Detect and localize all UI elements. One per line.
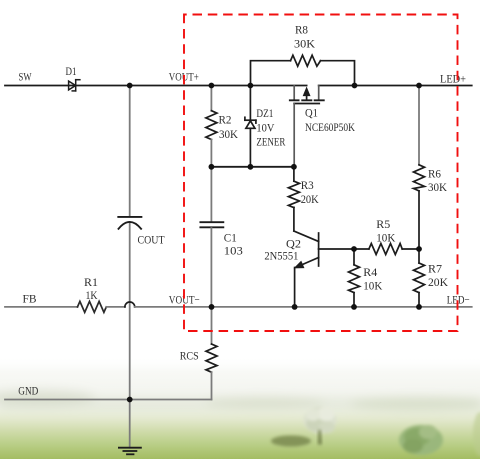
svg-text:20K: 20K	[428, 275, 448, 289]
node R4 bottom	[351, 304, 357, 310]
svg-text:COUT: COUT	[138, 233, 166, 247]
svg-text:R7: R7	[428, 262, 442, 276]
node VOUT-/C1/RCS	[209, 304, 215, 310]
svg-text:2N5551: 2N5551	[264, 249, 298, 263]
wire: gate node rail (R2/DZ1/R3)	[211, 166, 294, 168]
wire: top net SW/VOUT+/LED+ left segment	[5, 85, 307, 87]
zener DZ1	[245, 86, 256, 167]
resistor R8	[251, 55, 355, 85]
resistor RCS	[206, 307, 217, 400]
node gate rail R3	[291, 164, 297, 170]
svg-text:R3: R3	[301, 178, 314, 192]
svg-text:30K: 30K	[219, 127, 238, 141]
svg-text:LED+: LED+	[440, 72, 466, 86]
svg-text:R6: R6	[428, 167, 441, 181]
transistor Q2	[294, 231, 319, 307]
node R5/R4	[351, 246, 357, 252]
node gate rail R2	[209, 164, 215, 170]
wire: GND rail	[5, 399, 212, 401]
svg-text:R2: R2	[219, 113, 232, 127]
svg-text:Q1: Q1	[305, 106, 318, 120]
node Q2 emitter	[292, 304, 298, 310]
capacitor COUT	[118, 217, 141, 229]
resistor R1	[78, 301, 107, 312]
svg-text:NCE60P50K: NCE60P50K	[305, 120, 355, 134]
wire: FB net R1 to hop	[106, 306, 125, 308]
svg-text:R5: R5	[376, 217, 390, 231]
svg-text:DZ1: DZ1	[256, 106, 273, 120]
svg-text:RCS: RCS	[180, 349, 199, 363]
svg-text:FB: FB	[23, 292, 37, 306]
wire hop over COUT branch	[125, 302, 135, 307]
svg-text:R8: R8	[295, 23, 308, 37]
svg-text:30K: 30K	[294, 37, 315, 51]
resistor R5	[354, 244, 419, 255]
capacitor C1	[200, 167, 223, 307]
wire: COUT branch vertical (VOUT+ down to GND)	[129, 86, 131, 216]
node GND/COUT	[127, 397, 133, 403]
svg-text:10V: 10V	[256, 120, 274, 134]
wire: FB net left of R1	[5, 306, 78, 308]
svg-text:SW: SW	[19, 70, 32, 84]
svg-text:1K: 1K	[86, 288, 98, 302]
wire: VOUT- / LED- net	[135, 306, 472, 308]
svg-text:GND: GND	[18, 384, 38, 398]
mosfet Q1	[290, 86, 324, 167]
ground symbol	[119, 400, 141, 454]
wire: top net right segment to LED+	[319, 85, 472, 87]
svg-text:R1: R1	[84, 275, 98, 289]
node R2 top	[209, 83, 215, 89]
node R7 bottom	[416, 304, 422, 310]
svg-text:R4: R4	[363, 265, 377, 279]
svg-text:103: 103	[224, 244, 243, 258]
node R5/R6/R7	[416, 246, 422, 252]
node gate rail DZ1	[248, 164, 254, 170]
wire: COUT lower lead to ground rail	[129, 223, 131, 399]
node DZ1 top	[248, 83, 254, 89]
svg-text:20K: 20K	[301, 192, 319, 206]
resistor R4	[349, 249, 360, 307]
svg-text:30K: 30K	[428, 180, 447, 194]
diode D1 (schottky)	[69, 80, 80, 91]
highlight box (red dashed)	[184, 15, 458, 332]
resistor R2	[206, 86, 217, 167]
resistor R7	[414, 249, 425, 307]
resistor R6	[414, 86, 425, 249]
svg-text:D1: D1	[66, 64, 77, 78]
node Q1 drain / R8	[352, 83, 358, 89]
meadow photo backdrop	[0, 356, 480, 459]
wire: Q2 base to divider	[319, 248, 354, 250]
svg-text:10K: 10K	[376, 231, 395, 245]
node R6 top	[416, 83, 422, 89]
svg-text:10K: 10K	[363, 279, 382, 293]
resistor R3	[288, 167, 299, 231]
svg-text:C1: C1	[224, 231, 237, 245]
node VOUT+/D1	[127, 83, 133, 89]
svg-text:ZENER: ZENER	[256, 135, 285, 149]
